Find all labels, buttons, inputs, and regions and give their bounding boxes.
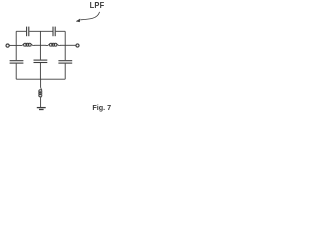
wire: node B down to shunt capacitor C4 xyxy=(39,45,41,59)
capacitor C5 (right shunt) xyxy=(58,61,72,63)
caption Fig. 7 xyxy=(92,103,111,112)
input terminal (left port circle) xyxy=(6,44,9,47)
wire: C2 to right riser xyxy=(56,30,65,32)
capacitor C3 (left shunt) xyxy=(10,61,24,63)
capacitor C2 (bridging L2) xyxy=(53,27,55,37)
capacitor C4 (middle shunt) xyxy=(34,60,48,62)
wire: C5 to bottom rail xyxy=(64,64,66,80)
wire: node A down to shunt capacitor C3 xyxy=(15,45,17,60)
wire: bottom rail down to inductor L3 xyxy=(40,79,42,87)
wire: right riser of tank 2 (x=65.2) xyxy=(64,31,66,45)
wire: left terminal to inductor L1 xyxy=(9,44,20,46)
capacitor C1 (bridging L1) xyxy=(27,27,29,37)
wire: L1 to node B xyxy=(34,44,46,46)
wire: node C down to shunt capacitor C5 xyxy=(64,45,66,60)
wire: bottom rail xyxy=(16,78,65,80)
label LPF xyxy=(90,0,105,10)
inductor L3 (vertical coil to ground) xyxy=(39,87,42,98)
ground xyxy=(37,108,46,110)
wire: middle riser (x=40.3) xyxy=(39,31,41,45)
leader arrow from LPF label xyxy=(76,12,100,22)
wire: L2 to right terminal xyxy=(60,44,76,46)
wire: top branch to capacitor C1 xyxy=(16,30,26,32)
output terminal (right port circle) xyxy=(76,44,79,47)
node A (junction x=16 on main line) xyxy=(15,44,17,46)
wire: C1 to middle riser and on to capacitor C2 xyxy=(29,30,52,32)
inductor L1 (series coil 1) xyxy=(20,43,35,46)
wire: C3 to bottom rail xyxy=(15,64,17,80)
wire: left riser of tank 1 (x=16, main line up to top branch) xyxy=(15,31,17,45)
inductor L2 (series coil 2) xyxy=(46,43,61,46)
wire: C4 to bottom rail xyxy=(39,63,41,79)
wire: L3 to ground xyxy=(40,98,42,107)
